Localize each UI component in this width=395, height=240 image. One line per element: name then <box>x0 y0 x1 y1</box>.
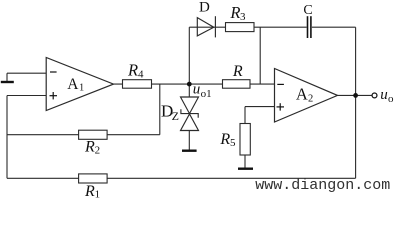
svg-text:2: 2 <box>308 94 313 105</box>
svg-text:1: 1 <box>79 83 84 94</box>
svg-text:u: u <box>193 82 201 98</box>
svg-text:1: 1 <box>95 189 101 200</box>
svg-text:R: R <box>232 63 243 80</box>
svg-text:3: 3 <box>240 11 246 23</box>
svg-text:4: 4 <box>138 69 144 81</box>
svg-text:u: u <box>380 87 388 103</box>
svg-text:A: A <box>296 85 308 104</box>
svg-text:o: o <box>388 93 394 105</box>
svg-text:R: R <box>84 139 95 156</box>
svg-text:C: C <box>303 3 312 18</box>
svg-text:2: 2 <box>95 144 101 156</box>
svg-text:R: R <box>229 3 240 22</box>
svg-text:D: D <box>199 0 210 16</box>
svg-text:R: R <box>219 131 230 148</box>
svg-text:5: 5 <box>230 137 236 149</box>
svg-text:o1: o1 <box>201 88 212 100</box>
svg-text:Z: Z <box>172 109 179 123</box>
svg-text:www.diangon.com: www.diangon.com <box>255 177 390 194</box>
svg-text:R: R <box>84 183 95 200</box>
svg-text:A: A <box>67 76 79 93</box>
svg-text:R: R <box>127 61 138 80</box>
